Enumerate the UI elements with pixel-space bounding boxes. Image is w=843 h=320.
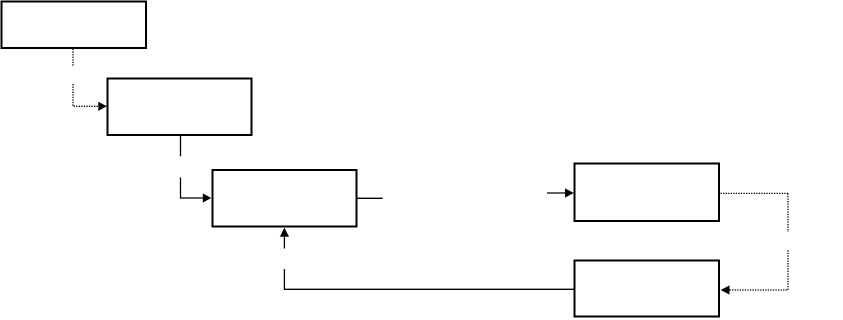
- box B: [108, 79, 252, 136]
- wire A-to-B dotted elbow: [73, 84, 99, 106]
- arrowhead into box C left: [203, 193, 211, 202]
- wire up-arrow stem below box C: [283, 237, 285, 249]
- wire D-right dotted horizontal: [721, 192, 789, 194]
- box C: [213, 170, 357, 227]
- wire B-to-C solid elbow: [181, 178, 204, 199]
- wire dotted elbow into box E: [729, 250, 788, 290]
- wire right dotted vertical segment 1: [787, 193, 789, 232]
- arrowhead into box B left: [98, 102, 107, 111]
- box D: [575, 164, 720, 222]
- box E: [575, 261, 720, 317]
- arrowhead into box E right (pointing left): [721, 285, 730, 294]
- wire C-right stub: [358, 197, 383, 199]
- wire arrow-into-D stem: [547, 192, 565, 194]
- arrowhead into box C bottom (pointing up): [280, 228, 289, 237]
- wire B-down solid segment 1: [180, 136, 182, 156]
- box A (top-left): [2, 2, 147, 49]
- wire E-to-C solid elbow (long bottom run): [284, 269, 574, 289]
- arrowhead into box D left: [565, 188, 574, 197]
- wire A-down dotted segment 1: [72, 49, 74, 67]
